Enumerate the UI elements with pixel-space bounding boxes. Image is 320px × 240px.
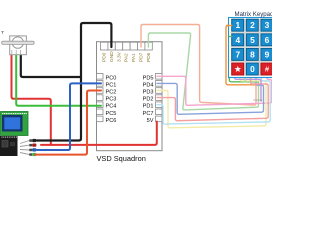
wire salmon PD7 over-top to keypad [141, 25, 256, 106]
chip right pin labels [143, 75, 154, 124]
svg-text:PC4: PC4 [106, 104, 117, 110]
svg-text:PA1: PA1 [131, 53, 137, 62]
svg-text:PC3: PC3 [106, 97, 117, 103]
svg-text:PC6: PC6 [106, 118, 117, 124]
svg-text:PC7: PC7 [143, 111, 154, 117]
wire purple keypad pin1 [234, 77, 261, 102]
keypad buttons row4 [232, 63, 244, 75]
keypad buttons row1 [232, 19, 273, 75]
svg-text:3: 3 [265, 20, 270, 30]
wire green PD6 over-top to keypad [148, 33, 258, 110]
wire green sensor to PC4 [16, 54, 101, 106]
chip U1 VSD Squadron body [97, 42, 163, 151]
LCD screen [2, 115, 23, 132]
chip right pin boxes [156, 74, 163, 122]
wire blue LCD SDA to PC1 [35, 83, 101, 150]
keypad buttons row2 [232, 34, 244, 46]
backpack pot [2, 141, 8, 148]
svg-text:fritzing: fritzing [254, 98, 263, 102]
svg-text:3.3V: 3.3V [116, 51, 122, 62]
svg-text:PD1: PD1 [143, 104, 154, 110]
chip left pin labels [106, 75, 117, 124]
LCD green board [1, 112, 29, 136]
svg-text:PD3: PD3 [143, 90, 154, 96]
IR sensor body [2, 32, 35, 55]
keypad digits [235, 20, 269, 74]
keypad buttons row3 [232, 48, 244, 60]
svg-text:VSD Squadron: VSD Squadron [97, 154, 146, 163]
svg-text:PD5: PD5 [143, 75, 154, 81]
chip top pin labels [102, 51, 152, 62]
svg-text:PD7: PD7 [139, 52, 145, 62]
wire red PD2 [157, 77, 268, 121]
svg-text:1: 1 [235, 20, 240, 30]
svg-text:4: 4 [235, 35, 240, 45]
keypad gutter traces [230, 19, 272, 76]
svg-text:PD0: PD0 [102, 52, 108, 62]
wire orange tip into keypad [227, 25, 232, 27]
backpack pins [20, 141, 30, 155]
keypad frame [229, 18, 290, 78]
svg-text:2: 2 [250, 20, 255, 30]
svg-text:Matrix Keypad: Matrix Keypad [235, 11, 273, 18]
svg-text:PC0: PC0 [106, 75, 117, 81]
svg-text:9: 9 [265, 49, 270, 59]
svg-text:PC2: PC2 [106, 90, 117, 96]
wire green keypad left hug [229, 37, 258, 82]
svg-text:PA2: PA2 [124, 53, 130, 62]
wire green keypad pin3 stub [244, 77, 246, 82]
wire orange keypad left hug [226, 26, 256, 85]
svg-text:GND: GND [109, 51, 115, 62]
wire black GND net [21, 23, 112, 141]
svg-text:0: 0 [250, 64, 255, 74]
chip left pin boxes [97, 74, 104, 122]
svg-text:PC1: PC1 [106, 82, 117, 88]
wire yellow PD3 [157, 77, 266, 128]
svg-text:PD2: PD2 [143, 97, 154, 103]
wire green tip into keypad [230, 36, 232, 38]
LCD header holes [2, 113, 27, 114]
svg-text:PD4: PD4 [143, 82, 154, 88]
wire blue PD4 [157, 77, 264, 115]
wire orange LCD SCL to PC2 [35, 91, 101, 155]
chip top pin boxes [101, 42, 153, 50]
svg-text:7: 7 [235, 49, 240, 59]
wire pink PD5 [157, 76, 272, 105]
svg-text:5V: 5V [147, 118, 154, 124]
svg-text:PC5: PC5 [106, 111, 117, 117]
wire red 5V net [12, 54, 157, 145]
svg-text:PD6: PD6 [146, 52, 152, 62]
svg-text:5: 5 [250, 35, 255, 45]
wire cyan PD1 [157, 77, 270, 125]
svg-text:8: 8 [250, 49, 255, 59]
LCD i2c backpack [0, 136, 18, 156]
svg-text:6: 6 [265, 35, 270, 45]
LCD wire connectors [29, 139, 36, 156]
